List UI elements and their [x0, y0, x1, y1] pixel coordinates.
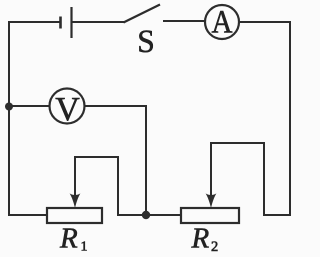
R2 slider arrowhead — [206, 193, 217, 208]
svg-text:R: R — [191, 222, 210, 254]
R1 rheostat body — [47, 208, 102, 223]
battery negative plate (short bar) — [59, 17, 62, 29]
battery positive plate (long bar) — [70, 7, 72, 38]
voltmeter V1 circle — [50, 89, 85, 124]
ammeter A1 circle — [205, 5, 239, 39]
wire R1 slider elbow vertical — [117, 156, 119, 216]
wire R2 slider loop horizontal — [211, 142, 265, 144]
wire junction to R1 slider elbow — [118, 214, 146, 216]
wire voltmeter branch vertical down — [145, 105, 147, 215]
junction node (bottom, between R1 and R2) — [142, 211, 150, 219]
wire junction to voltmeter left — [9, 105, 50, 107]
wire vertical up to R2 slider loop — [263, 142, 265, 216]
wire bottom-right horizontal — [264, 214, 291, 216]
wire voltmeter right to corner — [85, 105, 147, 107]
wire R1 slider stem — [74, 156, 76, 197]
wire R2 slider stem — [210, 142, 212, 197]
junction node (left, voltmeter tap) — [5, 103, 13, 111]
wire ammeter to top-right corner — [239, 21, 290, 23]
svg-text:2: 2 — [211, 239, 218, 255]
R2 rheostat body — [181, 208, 239, 223]
svg-text:V: V — [55, 91, 80, 128]
wire R1 slider loop horizontal — [74, 156, 119, 158]
wire R2 left terminal to junction — [146, 214, 181, 216]
wire switch to ammeter — [163, 20, 205, 22]
svg-text:R: R — [59, 222, 78, 254]
wire battery to switch — [72, 21, 125, 23]
svg-text:1: 1 — [81, 240, 88, 255]
switch S blade — [124, 5, 161, 23]
wire left vertical — [8, 21, 10, 216]
wire bottom-left horizontal to R1 left terminal — [9, 214, 47, 216]
svg-text:A: A — [212, 4, 233, 40]
wire top-left horizontal (battery negative to left corner) — [9, 21, 60, 23]
svg-text:S: S — [137, 24, 155, 60]
R1 slider arrowhead — [70, 193, 81, 208]
wire right vertical — [289, 21, 291, 216]
